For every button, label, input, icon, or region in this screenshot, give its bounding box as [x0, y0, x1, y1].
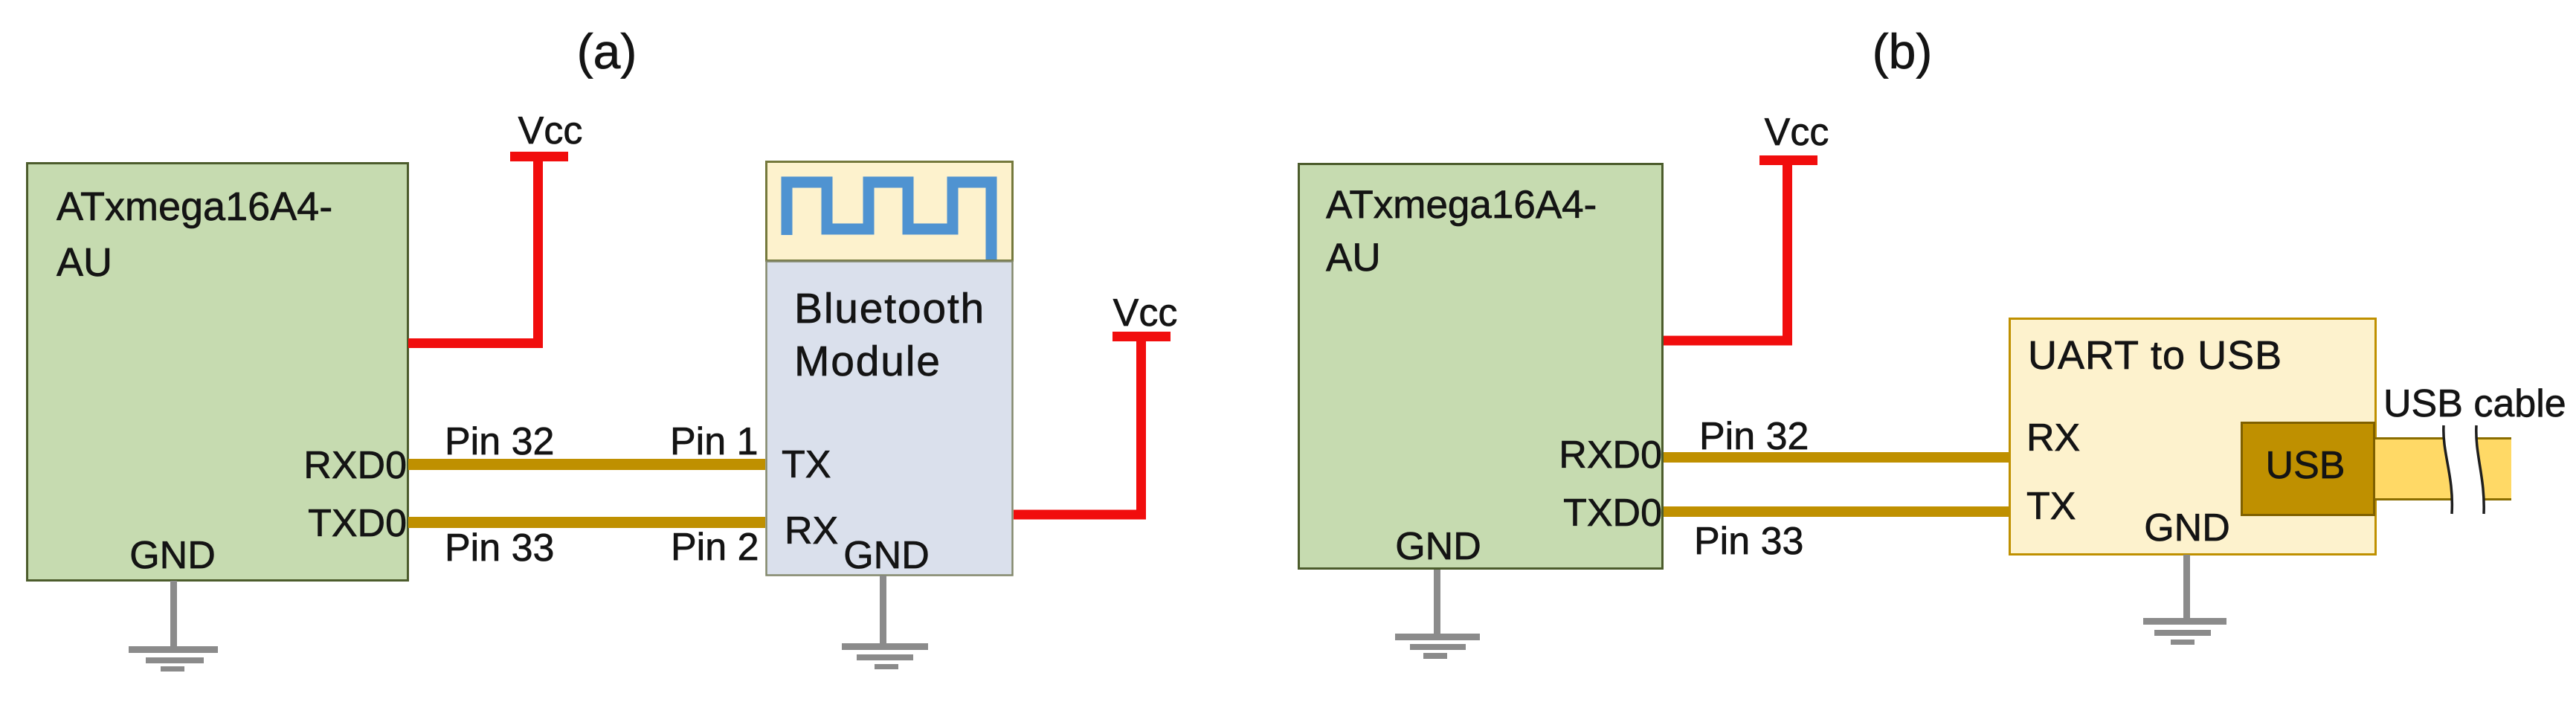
- power symbol Vcc (module): [1112, 332, 1171, 341]
- svg-text:Module: Module: [794, 338, 941, 385]
- Bluetooth module header: [767, 162, 1013, 261]
- svg-text:GND: GND: [1395, 525, 1481, 568]
- ground (U2): [842, 576, 928, 669]
- svg-text:RXD0: RXD0: [1559, 434, 1662, 477]
- svg-text:Vcc: Vcc: [1765, 111, 1829, 154]
- svg-text:AU: AU: [1326, 236, 1381, 280]
- svg-text:USB: USB: [2266, 444, 2345, 487]
- wire Vcc to U2: [1014, 341, 1142, 515]
- antenna square-wave icon: [787, 182, 991, 260]
- svg-text:Pin 1: Pin 1: [670, 420, 759, 463]
- svg-text:ATxmega16A4-: ATxmega16A4-: [1326, 183, 1597, 227]
- USB connector J1: [2242, 423, 2374, 515]
- power symbol Vcc (left): [510, 152, 568, 161]
- cable break mark 1: [2444, 425, 2453, 514]
- svg-text:TX: TX: [2026, 485, 2076, 528]
- svg-text:Pin 32: Pin 32: [1699, 415, 1809, 458]
- MCU block U1 ATxmega16A4-AU: [28, 164, 408, 581]
- svg-text:UART to USB: UART to USB: [2028, 333, 2282, 378]
- svg-text:USB cable: USB cable: [2383, 382, 2566, 425]
- svg-text:Pin 32: Pin 32: [445, 420, 554, 463]
- MCU block U3 ATxmega16A4-AU: [1299, 164, 1663, 569]
- wire RXD0 to TX: [408, 459, 765, 470]
- svg-text:Pin 33: Pin 33: [1694, 520, 1803, 563]
- svg-text:RX: RX: [785, 509, 838, 553]
- svg-text:(b): (b): [1873, 24, 1933, 79]
- ground (U1): [129, 581, 218, 672]
- wire RXD0 to RX (b): [1664, 452, 2009, 463]
- wire Vcc to U3: [1664, 165, 1788, 341]
- svg-text:(a): (a): [577, 24, 637, 79]
- svg-text:Pin 2: Pin 2: [671, 526, 759, 569]
- cable break gap: [2444, 425, 2484, 515]
- svg-text:RXD0: RXD0: [303, 444, 407, 487]
- svg-text:GND: GND: [843, 534, 930, 577]
- svg-text:ATxmega16A4-: ATxmega16A4-: [57, 184, 332, 229]
- wire TXD0 to RX: [408, 517, 765, 528]
- ground (U3): [1395, 570, 1480, 659]
- svg-text:AU: AU: [57, 240, 112, 285]
- ground (U4): [2143, 555, 2226, 645]
- svg-text:TX: TX: [782, 443, 831, 486]
- svg-text:GND: GND: [129, 534, 216, 577]
- cable break mark 2: [2476, 425, 2484, 514]
- svg-text:Pin 33: Pin 33: [445, 526, 554, 570]
- svg-text:RX: RX: [2026, 416, 2080, 460]
- power symbol Vcc (b): [1759, 155, 1817, 165]
- svg-text:Bluetooth: Bluetooth: [794, 285, 985, 332]
- svg-text:TXD0: TXD0: [1563, 492, 1662, 535]
- wire Vcc to U1: [408, 161, 538, 344]
- svg-text:Vcc: Vcc: [518, 109, 583, 152]
- Bluetooth module body U2: [767, 262, 1013, 576]
- svg-text:GND: GND: [2144, 506, 2230, 550]
- svg-text:TXD0: TXD0: [308, 502, 407, 545]
- UART to USB converter U4: [2010, 319, 2376, 555]
- USB cable segment: [2374, 438, 2511, 500]
- svg-text:Vcc: Vcc: [1113, 292, 1178, 335]
- wire TXD0 to TX (b): [1664, 506, 2009, 517]
